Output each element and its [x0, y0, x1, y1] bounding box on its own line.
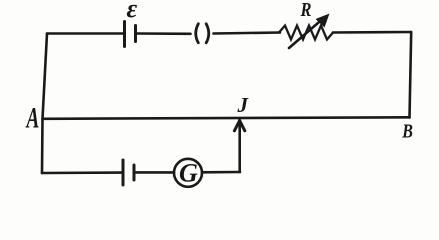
wire right vertical (top corner to B): [410, 32, 412, 118]
wire potentiometer A to B: [43, 117, 410, 119]
battery cell ε (long plate): [123, 22, 126, 47]
wire left vertical (top corner through A to bottom corner): [42, 34, 47, 174]
wire key to rheostat: [214, 33, 281, 34]
svg-text:J: J: [237, 93, 250, 117]
key K right bracket ): [206, 24, 209, 43]
svg-text:R: R: [300, 0, 312, 20]
battery cell ε (short plate): [134, 26, 137, 42]
wire top-left corner to battery: [47, 32, 124, 35]
svg-text:A: A: [25, 102, 39, 134]
jockey J arrowhead: [234, 121, 244, 131]
wire galvanometer to jockey corner: [202, 171, 240, 174]
key K left bracket (: [196, 24, 199, 43]
wire battery to key: [137, 32, 191, 35]
jockey J vertical wire: [238, 122, 241, 172]
battery cell 2 (long plate): [122, 160, 125, 185]
rheostat R zigzag element: [279, 26, 333, 40]
node B label: [401, 120, 413, 142]
svg-text:B: B: [401, 120, 413, 142]
wire bottom-left corner to battery 2: [42, 171, 122, 174]
node A label: [25, 102, 39, 134]
rheostat R arrowhead: [316, 14, 330, 28]
svg-text:ε: ε: [127, 0, 138, 23]
wire battery 2 to galvanometer: [136, 171, 174, 174]
svg-text:G: G: [179, 159, 198, 188]
galvanometer G circle: [174, 159, 202, 187]
label R (rheostat): [300, 0, 312, 20]
rheostat R arrow shaft: [289, 20, 322, 49]
wire rheostat to top-right corner: [333, 31, 411, 34]
battery cell 2 (short plate): [133, 165, 136, 180]
